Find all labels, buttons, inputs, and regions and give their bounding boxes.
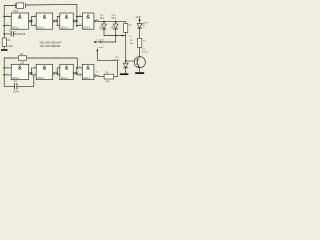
resistor R1 <box>2 38 12 48</box>
diode LED HL1 <box>99 15 106 29</box>
wire crystal feedback <box>26 4 77 16</box>
wire gate input stubs row1 col1 <box>4 17 11 26</box>
wire bottom bus <box>4 58 18 86</box>
svg-text:&: & <box>86 14 90 20</box>
svg-text:DD1.4: DD1.4 <box>83 26 90 29</box>
svg-text:ZQ1: ZQ1 <box>13 10 18 13</box>
svg-text:&: & <box>18 14 22 20</box>
wire C2 feedback riser <box>17 75 34 86</box>
resistor R3 <box>124 23 133 37</box>
wire diode VD1 drop <box>103 22 105 24</box>
gate DD2.1 <box>7 64 34 80</box>
crystal ZQ1 <box>13 3 25 13</box>
terminal arrow k vyv.14 <box>93 40 104 49</box>
+9V terminal <box>135 16 141 21</box>
node dots risers row2 <box>31 72 33 74</box>
wire DD1.4 output rail <box>96 20 125 23</box>
terminal arrow k vyv.7 <box>96 49 98 52</box>
wire lower rail <box>104 29 126 35</box>
svg-text:DD1,DD2 К561ЛА7: DD1,DD2 К561ЛА7 <box>40 40 63 44</box>
wire VT1 base <box>126 60 134 62</box>
svg-text:&: & <box>86 66 90 72</box>
wire resistor R3 leads <box>125 22 127 36</box>
ground under R1 <box>1 49 8 51</box>
wire left input bus top <box>4 6 15 34</box>
gate DD2.3 <box>59 64 78 80</box>
svg-text:DD1.2: DD1.2 <box>37 26 44 29</box>
svg-text:VD1-VD3 КД522Б: VD1-VD3 КД522Б <box>40 44 61 48</box>
wire VD3 to ground <box>125 68 127 74</box>
node dot VT1 base junction <box>125 60 127 62</box>
svg-text:DD2.2: DD2.2 <box>37 77 44 80</box>
wire DD2.4 output to R6 <box>96 75 104 78</box>
ground under VT1 <box>135 72 144 74</box>
svg-text:100: 100 <box>20 61 25 64</box>
svg-text:&: & <box>43 66 47 72</box>
wire gate link row1 col1-col2 <box>31 17 36 26</box>
svg-text:0,047: 0,047 <box>13 91 20 94</box>
svg-text:2,2М: 2,2М <box>7 45 12 48</box>
wire gate link row2 col1-col2 <box>31 68 36 75</box>
wire k vyv.7 run to C2 net <box>97 51 117 77</box>
svg-text:КД522Б: КД522Б <box>113 59 121 61</box>
svg-text:КТ315Г: КТ315Г <box>142 52 148 54</box>
svg-text:DD2.4: DD2.4 <box>83 77 90 80</box>
capacitor C2 <box>13 80 20 94</box>
svg-text:HL1: HL1 <box>100 18 105 20</box>
node dots risers row1 <box>31 20 33 22</box>
svg-text:DD1.1: DD1.1 <box>12 26 19 29</box>
diode LED HL2 <box>111 15 118 29</box>
gate DD1.2 <box>34 13 57 29</box>
resistor R6 <box>104 72 114 83</box>
wire R4 feedback <box>27 58 77 68</box>
svg-text:DD2.3: DD2.3 <box>61 77 68 80</box>
svg-text:+9 В: +9 В <box>135 16 141 19</box>
capacitor C1 <box>9 30 26 37</box>
gate DD1.1 <box>7 13 34 29</box>
node dots left bus row2 <box>3 67 5 69</box>
transistor VT1 <box>134 49 148 68</box>
wire gate link row1 col3-col4 <box>75 17 82 26</box>
svg-text:HL2: HL2 <box>112 18 117 20</box>
LED HL3 <box>137 22 148 28</box>
svg-text:&: & <box>18 66 22 72</box>
gate DD1.3 <box>59 13 78 29</box>
wire R1 leads <box>3 34 5 49</box>
svg-text:к выв.14: к выв.14 <box>97 40 104 42</box>
wire gate link row2 col2-col3 <box>55 68 60 75</box>
wire VT1 emitter ground lead <box>139 68 141 72</box>
diode VD3 <box>113 57 128 68</box>
wire gate link row2 col3-col4 <box>75 68 82 75</box>
wire +9V chain <box>139 21 141 57</box>
svg-text:1к: 1к <box>129 36 131 38</box>
node dots left bus row1 <box>3 16 5 18</box>
svg-text:DD1.3: DD1.3 <box>61 26 68 29</box>
wire gate input stubs row2 col1 <box>4 68 11 75</box>
gate DD1.4 <box>79 13 99 29</box>
resistor R4 <box>18 53 26 65</box>
gate DD2.4 <box>79 64 99 80</box>
wire C1 tap <box>4 33 16 35</box>
wire diode VD2 drop <box>115 22 117 24</box>
net label text block <box>40 40 63 48</box>
gate DD2.2 <box>34 64 57 80</box>
wire drop to VD3 junction <box>125 36 127 64</box>
svg-text:&: & <box>43 14 47 20</box>
svg-text:к выв.7: к выв.7 <box>98 47 104 49</box>
svg-text:100мкФ: 100мкФ <box>17 33 26 36</box>
node dots top right rails <box>103 21 105 23</box>
wire gate link row1 col2-col3 <box>55 17 60 26</box>
svg-text:&: & <box>65 14 69 20</box>
resistor R5 <box>130 38 146 47</box>
ground under VD3 <box>120 73 129 75</box>
svg-text:&: & <box>65 66 69 72</box>
wire k vyv.14 run <box>100 36 116 43</box>
